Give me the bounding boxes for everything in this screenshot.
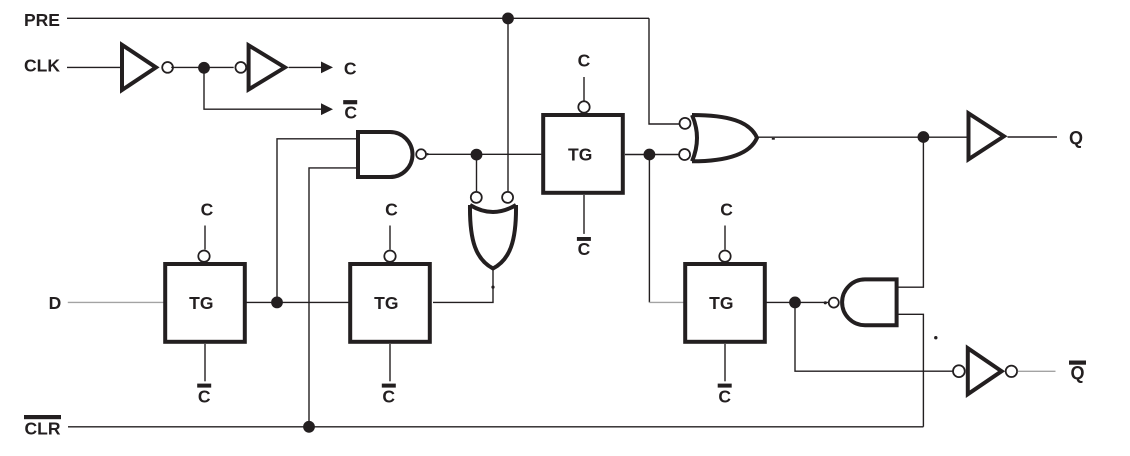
buffer U2: [249, 45, 285, 89]
svg-text:C: C: [578, 51, 591, 71]
wire NAND U3 input B from CLR: [309, 168, 357, 427]
wire U5 output (Q line): [758, 136, 967, 138]
svg-text:C: C: [385, 200, 398, 220]
wire U6 input bottom from CLR: [899, 314, 924, 427]
svg-text:TG: TG: [189, 293, 213, 313]
net label CLR: [24, 415, 61, 419]
svg-text:TG: TG: [709, 293, 733, 313]
speck on Q line: [772, 138, 775, 140]
wire TG3 junction down: [648, 155, 650, 303]
speck near U6: [934, 336, 937, 339]
transmission gate TG3: [543, 115, 623, 193]
label C-bar TG2: [382, 384, 396, 388]
wire NAND U3 input A from node A: [277, 139, 357, 303]
speck at U6 bubble input: [824, 301, 827, 304]
wire TG3 output to U5 lower input: [625, 154, 679, 156]
svg-text:TG: TG: [568, 145, 592, 165]
svg-text:C: C: [198, 387, 211, 407]
wire C to TG2 bubble: [389, 226, 391, 250]
inverter U1: [122, 45, 156, 90]
bubble TG1 clock: [198, 251, 209, 262]
speck on U4 output wire: [491, 286, 494, 289]
bubble TG2 clock: [384, 251, 395, 262]
wire TG3 C-bar: [583, 195, 585, 234]
wire D input (gray): [68, 301, 164, 303]
bubble U6 output: [829, 298, 839, 308]
wire junction down to U4 left input: [476, 155, 478, 191]
svg-text:D: D: [49, 293, 62, 313]
net label Q-bar: [1069, 361, 1086, 365]
wire TG4 C-bar: [724, 344, 726, 381]
bubble U1 output: [162, 62, 173, 73]
node Q junction: [918, 131, 930, 143]
buffer U7 (Q output): [969, 113, 1004, 159]
wire C to TG3 bubble: [583, 77, 585, 101]
wire Q-bar output (gray): [1018, 370, 1056, 372]
node TG3 output junction: [644, 149, 656, 161]
bubble U4 input left: [471, 192, 482, 203]
transmission gate TG1: [165, 264, 245, 342]
arrow C-bar: [321, 103, 333, 115]
svg-text:C: C: [344, 59, 357, 79]
node U3 output junction: [471, 149, 483, 161]
node CLR junction: [303, 421, 315, 433]
svg-text:CLR: CLR: [25, 419, 61, 439]
svg-text:C: C: [201, 200, 214, 220]
arrow C: [321, 62, 333, 74]
wire Q output: [1008, 136, 1058, 138]
wire PRE horizontal: [67, 17, 649, 19]
wire TG1 C-bar: [204, 344, 206, 381]
svg-text:PRE: PRE: [24, 10, 60, 30]
wire TG1 to TG2: [245, 301, 349, 303]
node C junction: [198, 62, 210, 74]
wire U2 output: [289, 66, 322, 68]
inverter U8 (Q-bar output): [968, 348, 1002, 394]
bubble TG4 clock: [719, 251, 730, 262]
wire U3 output to TG3: [427, 153, 542, 155]
bubble U4 input right: [502, 192, 513, 203]
wire U1 to U2: [171, 66, 234, 68]
wire CLK input: [67, 66, 121, 68]
svg-text:TG: TG: [374, 293, 398, 313]
node PRE junction: [502, 13, 514, 25]
bubble U2 input: [235, 62, 246, 73]
label C-bar TG4: [718, 384, 732, 388]
bubble U3 output: [416, 149, 426, 159]
svg-text:C: C: [578, 239, 591, 259]
svg-text:C: C: [718, 387, 731, 407]
bubble U5 input bottom: [679, 149, 690, 160]
label C-bar TG3: [577, 237, 591, 241]
wire C to TG4 bubble: [724, 226, 726, 250]
nand U3: [358, 132, 413, 177]
nand U6 (mirrored, inputs right): [842, 279, 896, 325]
node A junction (TG1 output): [271, 297, 283, 309]
node TG4 output junction: [789, 297, 801, 309]
svg-text:C: C: [382, 387, 395, 407]
svg-text:C: C: [344, 103, 357, 123]
wire C-bar branch: [204, 68, 322, 109]
wire PRE junction down to gate U4 right input: [507, 18, 509, 191]
wire TG2 C-bar: [389, 344, 391, 381]
bubble TG3 clock: [578, 101, 589, 112]
bubble U8 output: [1006, 366, 1017, 377]
speck at U3 bubble output: [426, 153, 428, 155]
svg-text:CLK: CLK: [24, 56, 60, 76]
wire U4 output down and left to TG2 output: [433, 269, 493, 303]
transmission gate TG2: [350, 264, 430, 342]
label C-bar TG1: [197, 384, 211, 388]
wire CLR: [68, 426, 923, 428]
svg-text:Q: Q: [1070, 363, 1084, 383]
wire into TG4 (gray): [649, 301, 684, 303]
wire C to TG1 bubble: [204, 226, 206, 250]
or-gate U4 (points down): [470, 205, 516, 269]
wire U6 input top from Q node: [899, 137, 924, 287]
or-gate U5: [692, 115, 757, 161]
transmission gate TG4: [685, 264, 765, 342]
svg-text:C: C: [720, 200, 733, 220]
net label C-bar (clock inverted): [343, 100, 357, 104]
wire TG4 junction to U8 input: [795, 302, 953, 371]
wire TG4 output to U6 bubble: [765, 301, 828, 303]
svg-text:Q: Q: [1069, 128, 1083, 148]
wire PRE down to gate U5 top input: [649, 18, 679, 124]
bubble U5 input top: [680, 118, 691, 129]
bubble U8 input: [953, 365, 965, 377]
